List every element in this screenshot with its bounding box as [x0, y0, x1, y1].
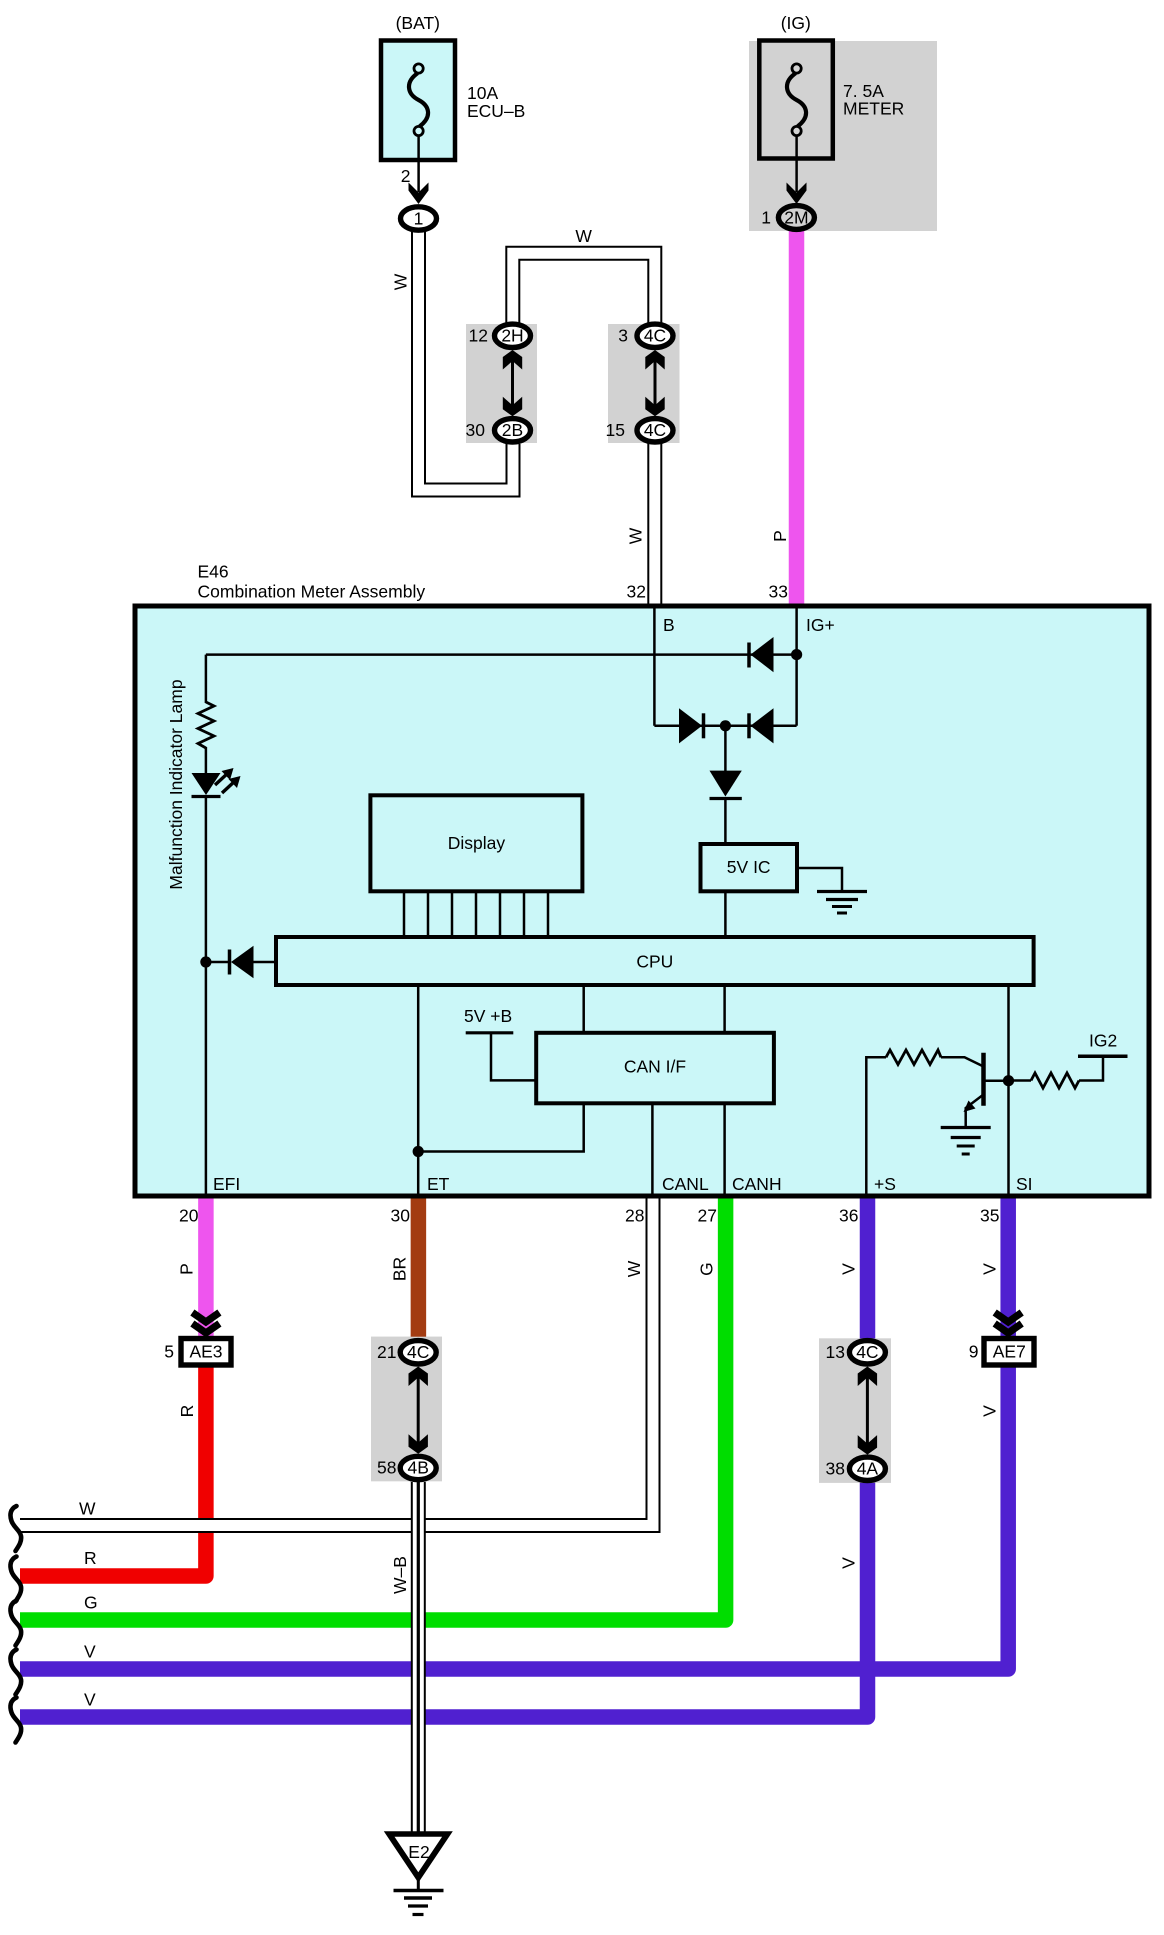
svg-text:P: P	[177, 1263, 197, 1275]
connector oval 2M	[778, 206, 814, 230]
junction dot IG+ top	[791, 649, 802, 660]
Display box	[370, 795, 582, 891]
diode D5 CPU to lamp (cathode left)	[230, 946, 254, 978]
wire G green pin 27 CANH down then left to frame curl	[20, 1198, 726, 1620]
wire transistor emitter to ground	[966, 1095, 984, 1128]
junction dot OR node	[720, 720, 731, 731]
svg-text:AE7: AE7	[993, 1342, 1026, 1362]
fuse 10A ECU-B element	[409, 64, 428, 192]
diode D3 from IG+ (cathode left)	[749, 708, 774, 743]
ground E2 triangle	[384, 1831, 453, 1883]
svg-text:(BAT): (BAT)	[396, 13, 440, 33]
wire CANL pin	[651, 1103, 654, 1196]
frame curl wire R	[10, 1557, 21, 1602]
svg-text:4C: 4C	[644, 326, 666, 346]
wire ET pin vertical	[417, 985, 420, 1196]
display pin 3	[451, 891, 454, 937]
svg-text:V: V	[839, 1557, 859, 1569]
resistor at +S	[886, 1050, 941, 1065]
svg-text:13: 13	[826, 1342, 845, 1362]
display pin 2	[427, 891, 430, 937]
wire CPU to CAN I/F right	[723, 985, 726, 1033]
resistor at IG2	[1031, 1073, 1079, 1088]
svg-text:V: V	[839, 1263, 859, 1275]
svg-text:4B: 4B	[407, 1458, 428, 1478]
diode D1 on lamp line (cathode left)	[749, 637, 774, 672]
svg-text:R: R	[177, 1405, 197, 1418]
svg-text:ECU–B: ECU–B	[467, 101, 525, 121]
gray box connector 21-4C/58-4B	[371, 1337, 442, 1482]
wire 5V IC to CPU	[724, 891, 727, 937]
ground E2 stem and bars	[394, 1880, 444, 1915]
svg-text:1: 1	[761, 208, 771, 228]
connector oval 1	[401, 207, 437, 230]
display pin 4	[475, 891, 478, 937]
frame curl wire W	[10, 1506, 21, 1551]
wire W white: pin 28 CANL down then left to frame curl	[20, 1198, 653, 1526]
svg-text:B: B	[663, 615, 675, 635]
svg-text:P: P	[770, 530, 790, 542]
svg-text:2B: 2B	[502, 420, 523, 440]
svg-text:G: G	[697, 1262, 717, 1276]
connector oval 58-4B	[400, 1456, 436, 1479]
svg-text:30: 30	[391, 1206, 411, 1226]
ground at 5V IC	[817, 892, 867, 914]
wire V violet pin 36 +S down to lower run, left to frame curl	[20, 1198, 868, 1717]
wire SI pin vertical	[1007, 985, 1010, 1196]
svg-text:5V +B: 5V +B	[464, 1006, 512, 1026]
svg-text:R: R	[84, 1548, 97, 1568]
wire W-B white-black: 58-4B down to E2 ground	[411, 1482, 426, 1833]
LED malfunction indicator lamp	[192, 768, 241, 797]
chevron arrow into AE7	[995, 1313, 1022, 1334]
svg-text:36: 36	[839, 1206, 858, 1226]
svg-text:W: W	[79, 1499, 96, 1519]
svg-text:4C: 4C	[856, 1342, 878, 1362]
svg-text:+S: +S	[874, 1174, 896, 1194]
double arrow 3-4C to 15-4C	[645, 350, 664, 416]
svg-text:METER: METER	[843, 99, 904, 119]
svg-text:W–B: W–B	[390, 1556, 410, 1594]
5V +B rail bar	[466, 1031, 514, 1034]
svg-text:CAN I/F: CAN I/F	[624, 1057, 686, 1077]
BIGBOX	[135, 606, 1149, 1196]
svg-text:CANH: CANH	[732, 1174, 782, 1194]
svg-text:E46: E46	[198, 562, 229, 582]
svg-text:30: 30	[466, 420, 486, 440]
GRAY-BOXES	[371, 41, 937, 1483]
ground at transistor emitter	[941, 1128, 991, 1155]
svg-text:5V IC: 5V IC	[727, 857, 771, 877]
wire 5V +B stem	[491, 1034, 536, 1080]
svg-text:W: W	[575, 226, 592, 246]
junction dot lamp-CPU diode	[200, 956, 211, 967]
junction dot ET	[413, 1146, 424, 1157]
svg-text:(IG): (IG)	[781, 13, 811, 33]
wire W white: 12-2H up, right, down to 3-4C	[513, 253, 655, 323]
gray box connector 3-4C/15-4C	[608, 324, 680, 443]
display pin 7	[547, 891, 550, 937]
fuse 7.5A METER box	[759, 41, 833, 159]
transistor emitter arrowhead	[964, 1101, 976, 1113]
svg-text:BR: BR	[390, 1257, 410, 1281]
fuse 7.5A METER element	[787, 64, 806, 192]
wire ET junction to CAN I/F	[418, 1103, 584, 1151]
wire BR brown pin 30 to 21-4C	[411, 1198, 427, 1342]
wire SI dot to IG2 resistor	[1009, 1079, 1032, 1082]
svg-text:2H: 2H	[501, 326, 523, 346]
svg-text:ET: ET	[427, 1174, 450, 1194]
node B vertical wire	[653, 608, 656, 726]
wire CPU to CAN I/F left	[582, 985, 585, 1033]
svg-text:58: 58	[377, 1458, 396, 1478]
display pin 1	[403, 891, 406, 937]
wire R red AE3 down then left to frame curl	[20, 1362, 206, 1576]
fuse 10A ECU-B box	[381, 41, 455, 161]
resistor MIL lamp	[198, 702, 214, 748]
wire diode to CPU left	[206, 961, 230, 964]
svg-text:4C: 4C	[644, 420, 666, 440]
gray box connector 2H/2B	[466, 324, 537, 443]
svg-text:32: 32	[627, 582, 646, 602]
wire W white: 15-4C down to pin 32	[647, 443, 662, 606]
svg-text:35: 35	[980, 1206, 999, 1226]
connector oval 21-4C	[400, 1341, 436, 1364]
CAN I/F box	[536, 1033, 774, 1104]
display pin 5	[499, 891, 502, 937]
wire lamp top horizontal	[206, 653, 797, 656]
wire diode-OR horizontal	[654, 725, 796, 728]
connector oval 30-2B	[495, 419, 531, 442]
wire W white: fuse BAT oval 1 down, right, up into 30-2B	[419, 230, 514, 490]
junction dot SI-collector	[1003, 1075, 1014, 1086]
transistor Q1 base bar	[981, 1053, 986, 1106]
chevron arrow into AE3	[192, 1313, 219, 1334]
wire V violet pin 35 SI through AE7 down, left to frame curl	[20, 1198, 1008, 1669]
wire resistor to transistor base	[941, 1057, 984, 1066]
double arrow 2H-2B	[503, 350, 522, 416]
arrow from fuse BAT to connector 1	[409, 183, 429, 205]
display pin 6	[523, 891, 526, 937]
svg-text:IG2: IG2	[1089, 1031, 1117, 1051]
svg-text:V: V	[84, 1690, 96, 1710]
svg-text:2: 2	[401, 166, 411, 186]
svg-text:2M: 2M	[784, 208, 808, 228]
frame curl wire G	[10, 1601, 21, 1646]
node IG+ vertical wire	[795, 608, 798, 726]
svg-text:E2: E2	[408, 1842, 429, 1862]
svg-text:CPU: CPU	[636, 952, 673, 972]
svg-text:Combination Meter Assembly: Combination Meter Assembly	[198, 582, 426, 602]
IG2 rail bar	[1078, 1055, 1128, 1059]
svg-text:12: 12	[469, 326, 488, 346]
E46 combination meter assembly box	[135, 606, 1149, 1196]
diode D4 down to 5V IC	[710, 771, 742, 799]
frame curl wire V1	[10, 1650, 21, 1695]
svg-text:21: 21	[377, 1342, 396, 1362]
connector oval 13-4C	[849, 1341, 885, 1364]
CPU box	[276, 937, 1034, 985]
wire transistor collector to SI	[984, 1079, 1009, 1082]
svg-text:20: 20	[179, 1206, 199, 1226]
connector oval 12-2H	[495, 324, 531, 347]
wire 5V IC to ground	[795, 868, 842, 890]
svg-text:3: 3	[618, 326, 628, 346]
gray box redraw over +S violet (connector 13-4C/38-4A)	[819, 1338, 891, 1482]
wire P pink from 2M to pin 33	[789, 231, 805, 606]
svg-text:W: W	[391, 273, 411, 290]
svg-text:V: V	[980, 1405, 1000, 1417]
double arrow 21-4C to 58-4B	[409, 1367, 428, 1454]
wire zener to 5V IC	[724, 798, 727, 844]
svg-text:9: 9	[969, 1342, 979, 1362]
svg-text:38: 38	[826, 1459, 845, 1479]
wire MIL lamp chain vertical	[205, 655, 208, 703]
wire CANH pin	[723, 1103, 726, 1196]
connector AE3	[181, 1339, 231, 1366]
svg-text:Display: Display	[448, 833, 506, 853]
connector oval 38-4A	[849, 1457, 885, 1480]
svg-text:33: 33	[769, 582, 788, 602]
svg-text:W: W	[626, 527, 646, 544]
svg-text:15: 15	[606, 420, 625, 440]
svg-text:Malfunction Indicator Lamp: Malfunction Indicator Lamp	[166, 679, 186, 889]
svg-text:G: G	[84, 1593, 98, 1613]
svg-text:V: V	[84, 1642, 96, 1662]
svg-text:28: 28	[625, 1206, 644, 1226]
double arrow 13-4C to 38-4A	[858, 1367, 877, 1455]
diode D2 from B (cathode right)	[679, 708, 704, 743]
svg-text:IG+: IG+	[806, 615, 835, 635]
svg-text:4C: 4C	[407, 1342, 429, 1362]
connector oval 3-4C	[637, 324, 673, 347]
svg-text:10A: 10A	[467, 83, 498, 103]
svg-text:27: 27	[698, 1206, 717, 1226]
svg-text:4A: 4A	[857, 1459, 879, 1479]
gray panel behind IG fuse	[749, 41, 937, 231]
svg-text:W: W	[624, 1260, 644, 1277]
gray box connector 13-4C/38-4A	[819, 1338, 891, 1482]
svg-text:CANL: CANL	[662, 1174, 709, 1194]
svg-text:EFI: EFI	[213, 1174, 240, 1194]
wire +S pin vertical and to resistor	[866, 1057, 886, 1196]
wire OR node down to zener	[724, 726, 727, 772]
svg-text:SI: SI	[1016, 1174, 1033, 1194]
wire P pink pin 20 to AE3	[198, 1198, 214, 1340]
gray box redraw over BR (connector 21-4C/58-4B)	[371, 1337, 442, 1482]
svg-text:1: 1	[414, 209, 424, 229]
svg-text:5: 5	[164, 1342, 174, 1362]
connector oval 15-4C	[637, 419, 673, 442]
frame curl wire V2	[10, 1698, 21, 1743]
5V IC box	[701, 844, 798, 891]
svg-text:AE3: AE3	[189, 1342, 222, 1362]
connector AE7	[984, 1339, 1034, 1366]
svg-text:V: V	[980, 1263, 1000, 1275]
arrow from fuse IG to connector 2M	[787, 183, 807, 205]
